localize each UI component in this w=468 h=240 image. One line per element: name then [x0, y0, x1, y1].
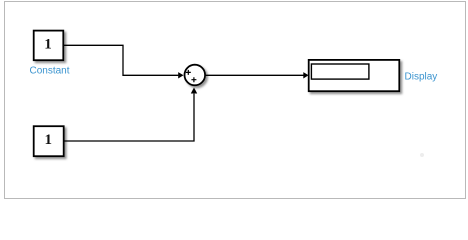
- plus sign (left input): [186, 70, 191, 75]
- value label 1 (Constant): [44, 37, 52, 53]
- sum block Add: [185, 65, 206, 86]
- arrowhead into Sum left input: [178, 72, 183, 78]
- constant block Constant: [34, 31, 64, 61]
- svg-text:1: 1: [44, 132, 52, 148]
- svg-text:Constant: Constant: [29, 66, 69, 77]
- display block Display: [309, 60, 400, 91]
- label Display: [405, 72, 438, 83]
- label Constant: [29, 66, 69, 77]
- plus sign (bottom input): [191, 77, 196, 82]
- display readout box: [311, 64, 369, 79]
- constant block Constant1: [34, 126, 64, 156]
- arrowhead into Sum bottom input: [191, 87, 197, 93]
- faint artifact dot: [420, 153, 424, 157]
- value label 1 (Constant1): [44, 132, 52, 148]
- wire Constant1 to Sum: [64, 94, 194, 141]
- svg-text:Display: Display: [405, 72, 438, 83]
- arrowhead into Display input: [303, 72, 308, 78]
- svg-text:1: 1: [44, 37, 52, 53]
- wire Constant to Sum: [64, 45, 179, 75]
- wire Sum to Display: [205, 74, 303, 76]
